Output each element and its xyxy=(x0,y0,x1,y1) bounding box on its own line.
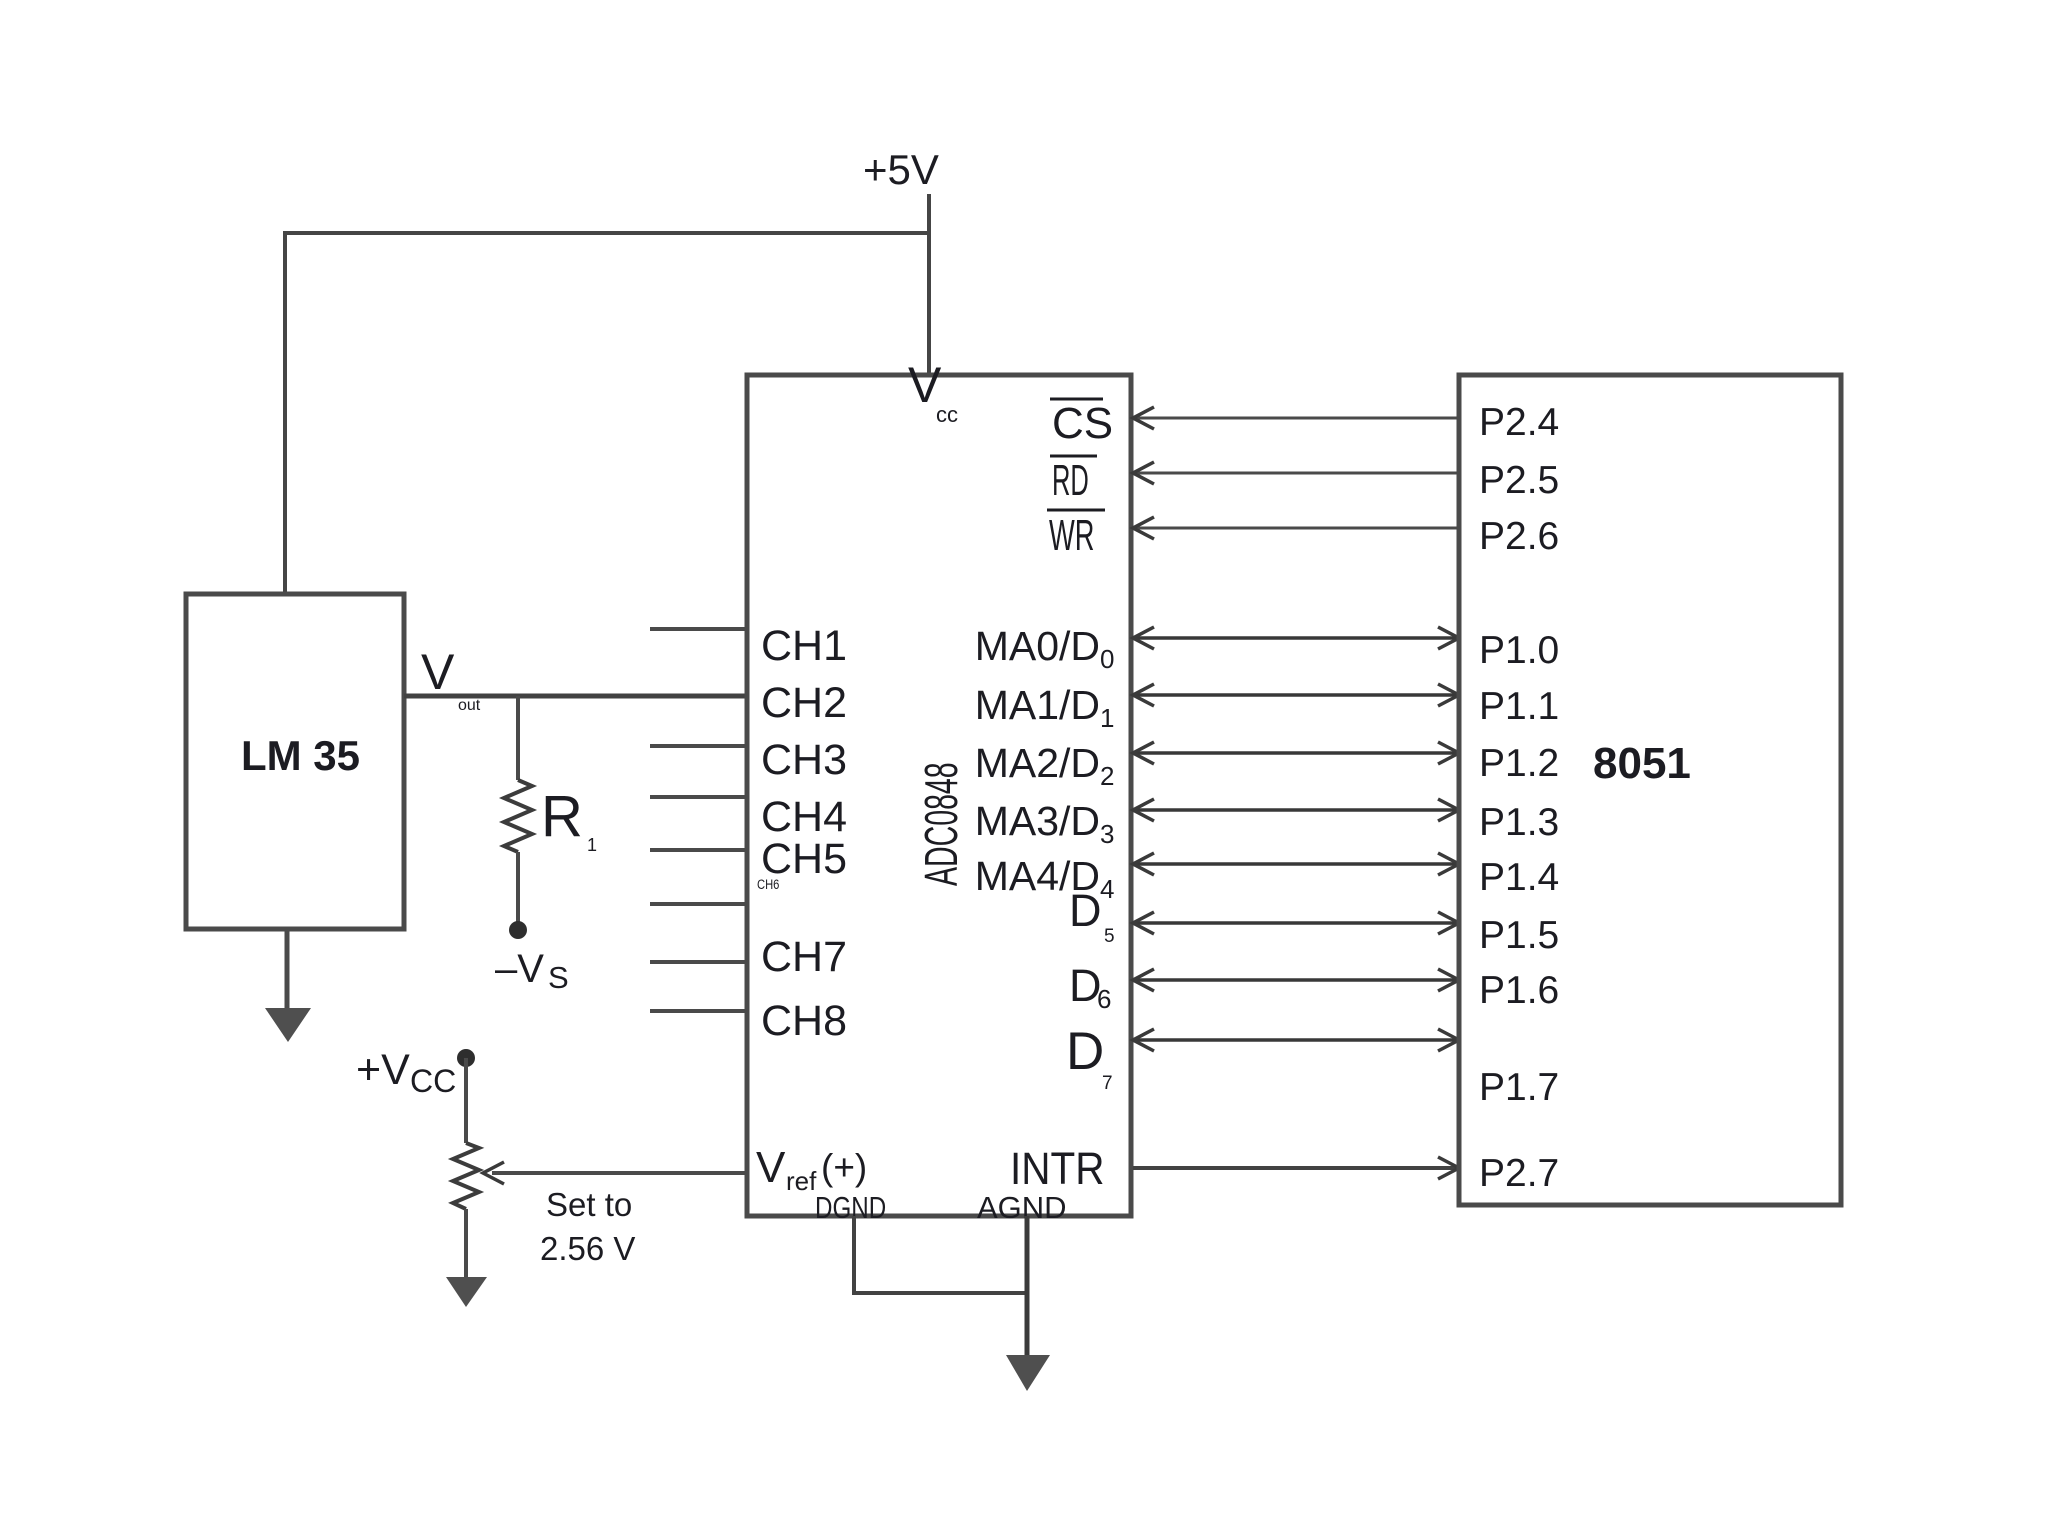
svg-text:1: 1 xyxy=(1100,703,1114,733)
svg-text:P1.4: P1.4 xyxy=(1479,856,1559,899)
wire RD from P2.5 xyxy=(1133,472,1459,475)
svg-text:CH1: CH1 xyxy=(761,622,847,670)
ADC0848 IC body xyxy=(747,375,1131,1216)
svg-text:P1.1: P1.1 xyxy=(1479,685,1559,728)
ground (LM35) xyxy=(265,1008,311,1042)
svg-text:P1.3: P1.3 xyxy=(1479,801,1559,844)
svg-text:D: D xyxy=(1066,1022,1104,1081)
svg-text:P1.5: P1.5 xyxy=(1479,914,1559,957)
pin stub CH4 xyxy=(650,795,747,799)
wire D7 to P1.7 xyxy=(1133,1038,1459,1042)
pin stub CH8 xyxy=(650,1009,747,1013)
node -Vs terminal dot xyxy=(509,921,527,939)
svg-text:D: D xyxy=(1069,885,1102,936)
svg-text:5: 5 xyxy=(1104,926,1115,947)
svg-text:CH5: CH5 xyxy=(761,835,847,883)
svg-text:0: 0 xyxy=(1100,644,1114,674)
svg-text:P2.5: P2.5 xyxy=(1479,459,1559,502)
svg-text:INTR: INTR xyxy=(1010,1144,1104,1194)
svg-text:CH2: CH2 xyxy=(761,679,847,727)
svg-text:cc: cc xyxy=(936,402,958,427)
svg-text:P1.2: P1.2 xyxy=(1479,742,1559,785)
svg-text:LM 35: LM 35 xyxy=(241,732,360,779)
svg-text:ref: ref xyxy=(786,1166,817,1196)
svg-text:+5V: +5V xyxy=(863,146,939,193)
wire WR from P2.6 xyxy=(1133,527,1459,530)
svg-text:ADC0848: ADC0848 xyxy=(916,762,968,886)
wire AGND down to ground xyxy=(1025,1216,1030,1357)
svg-text:1: 1 xyxy=(587,835,597,855)
potentiometer RV1 xyxy=(453,1143,479,1209)
pin stub CH6 xyxy=(650,902,747,906)
svg-text:MA3/D: MA3/D xyxy=(975,798,1100,844)
svg-text:DGND: DGND xyxy=(815,1190,886,1225)
svg-text:4: 4 xyxy=(1100,874,1114,904)
svg-text:–V: –V xyxy=(495,947,544,991)
svg-text:3: 3 xyxy=(1100,819,1114,849)
svg-text:out: out xyxy=(458,697,481,714)
svg-text:2: 2 xyxy=(1100,761,1114,791)
svg-text:7: 7 xyxy=(1102,1073,1113,1094)
svg-text:CH3: CH3 xyxy=(761,736,847,784)
wire MA0/D0 to P1.0 xyxy=(1133,636,1459,640)
wire +5V horizontal feed toward LM35 xyxy=(285,231,931,235)
resistor R1 xyxy=(504,780,532,852)
ground (potentiometer) xyxy=(446,1277,487,1307)
svg-text:MA2/D: MA2/D xyxy=(975,740,1100,786)
wire +5V vertical drop to Vcc pin xyxy=(927,194,931,375)
svg-text:MA1/D: MA1/D xyxy=(975,682,1100,728)
svg-text:CH6: CH6 xyxy=(757,877,779,892)
svg-text:P1.0: P1.0 xyxy=(1479,629,1559,672)
wire MA4/D4 to P1.4 xyxy=(1133,862,1459,866)
svg-text:CS: CS xyxy=(1052,399,1113,448)
svg-text:P2.7: P2.7 xyxy=(1479,1152,1559,1195)
svg-text:8051: 8051 xyxy=(1593,739,1691,788)
svg-text:RD: RD xyxy=(1052,455,1089,505)
svg-text:CH4: CH4 xyxy=(761,793,847,841)
svg-text:2.56 V: 2.56 V xyxy=(540,1230,635,1267)
svg-text:(+): (+) xyxy=(821,1147,867,1188)
8051 microcontroller body xyxy=(1459,375,1841,1205)
wire D5 to P1.5 xyxy=(1133,921,1459,925)
svg-text:P2.6: P2.6 xyxy=(1479,515,1559,558)
svg-text:MA0/D: MA0/D xyxy=(975,623,1100,669)
pin stub CH3 xyxy=(650,744,747,748)
LM 35 temperature sensor xyxy=(186,594,404,929)
pin stub CH1 xyxy=(650,627,747,631)
svg-text:P2.4: P2.4 xyxy=(1479,401,1559,444)
svg-text:AGND: AGND xyxy=(977,1190,1067,1225)
wire potentiometer to ground xyxy=(464,1209,468,1279)
wire LM35 ground stem xyxy=(285,929,290,1012)
svg-text:CH8: CH8 xyxy=(761,997,847,1045)
wire MA2/D2 to P1.2 xyxy=(1133,751,1459,755)
wire R1 branch from Vout node xyxy=(516,696,520,780)
wire INTR to P2.7 xyxy=(1133,1166,1459,1170)
svg-text:6: 6 xyxy=(1097,984,1111,1014)
svg-text:P1.6: P1.6 xyxy=(1479,969,1559,1012)
svg-text:CC: CC xyxy=(410,1063,456,1099)
svg-text:CH7: CH7 xyxy=(761,933,847,981)
wire R1 to -Vs terminal xyxy=(516,852,520,924)
pin stub CH7 xyxy=(650,960,747,964)
svg-text:R: R xyxy=(541,784,583,849)
wire Vref wiper arrow xyxy=(492,1171,747,1175)
wire D6 to P1.6 xyxy=(1133,978,1459,982)
wire MA1/D1 to P1.1 xyxy=(1133,693,1459,697)
wire Vout from LM35 to CH2 xyxy=(404,694,747,699)
svg-text:V: V xyxy=(421,644,455,700)
svg-text:P1.7: P1.7 xyxy=(1479,1066,1559,1109)
ground (AGND) xyxy=(1006,1355,1050,1391)
wire DGND down and over to AGND net xyxy=(854,1216,1027,1293)
wire +Vcc to potentiometer xyxy=(464,1058,468,1143)
wire CS from P2.4 xyxy=(1133,417,1459,420)
svg-text:S: S xyxy=(548,960,569,995)
node +Vcc terminal dot xyxy=(457,1049,475,1067)
wire MA3/D3 to P1.3 xyxy=(1133,808,1459,812)
svg-text:Set to: Set to xyxy=(546,1186,632,1223)
svg-text:+V: +V xyxy=(356,1046,410,1094)
wire vertical drop to LM35 top xyxy=(283,231,287,594)
svg-text:WR: WR xyxy=(1049,510,1094,559)
svg-text:V: V xyxy=(756,1143,786,1192)
pin stub CH5 xyxy=(650,848,747,852)
